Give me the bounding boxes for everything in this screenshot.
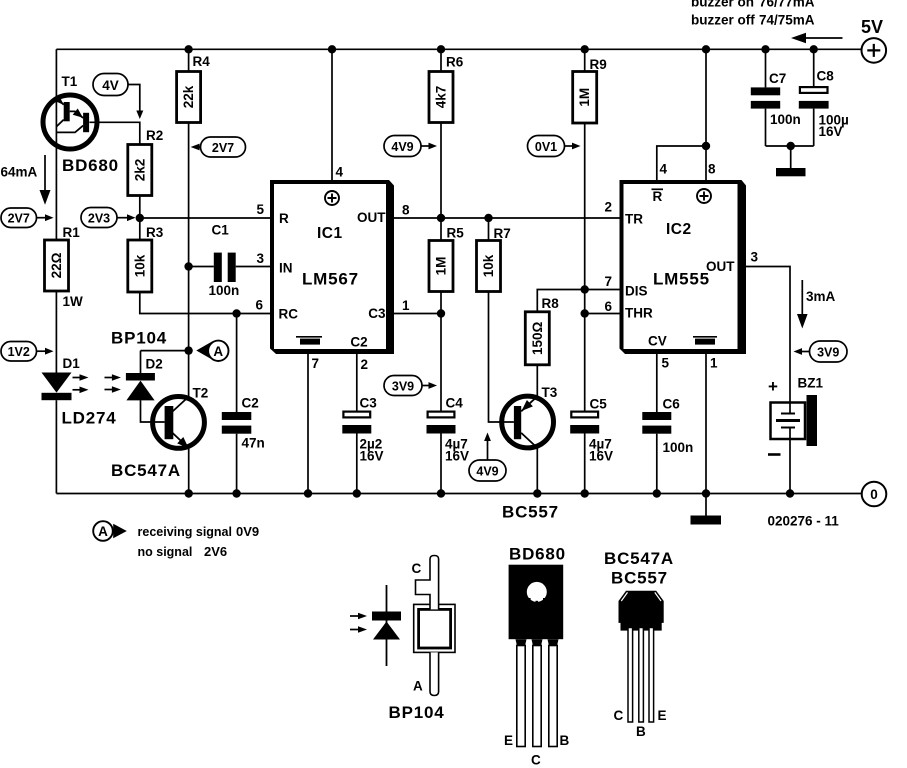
- svg-text:C3: C3: [360, 396, 378, 411]
- svg-text:4k7: 4k7: [434, 86, 449, 109]
- svg-text:1: 1: [402, 298, 410, 313]
- svg-text:IC2: IC2: [666, 221, 692, 238]
- node 4V9 measurement bottom: [469, 433, 506, 482]
- svg-text:100n: 100n: [209, 283, 240, 298]
- svg-text:64mA: 64mA: [1, 165, 38, 180]
- svg-text:22k: 22k: [181, 85, 196, 108]
- wire top +5V rail: [56, 48, 861, 50]
- node 1V2 measurement: [1, 342, 54, 362]
- svg-text:2V7: 2V7: [8, 212, 30, 226]
- svg-text:receiving signal: receiving signal: [138, 525, 232, 539]
- svg-text:C2: C2: [242, 396, 259, 411]
- svg-text:10k: 10k: [132, 254, 147, 277]
- svg-text:16V: 16V: [589, 449, 613, 464]
- svg-text:2k2: 2k2: [132, 159, 147, 182]
- capacitor C5: [570, 397, 613, 494]
- svg-text:C: C: [614, 708, 624, 723]
- svg-text:E: E: [658, 708, 667, 723]
- node 3V9 measurement mid: [384, 376, 437, 396]
- svg-text:020276 - 11: 020276 - 11: [768, 514, 840, 529]
- wire bottom 0V rail: [56, 493, 861, 495]
- svg-text:R4: R4: [193, 54, 211, 69]
- svg-text:74/75mA: 74/75mA: [759, 13, 815, 28]
- svg-text:T2: T2: [193, 386, 209, 401]
- svg-text:T1: T1: [62, 74, 78, 89]
- svg-text:BC557: BC557: [611, 569, 668, 588]
- svg-text:BD680: BD680: [509, 545, 566, 564]
- svg-text:2V6: 2V6: [204, 544, 227, 559]
- wire left vertical T1 emitter/collector branch: [55, 49, 57, 493]
- diode D1 LD274 IR LED: [42, 356, 117, 428]
- svg-text:6: 6: [604, 299, 612, 314]
- svg-text:5V: 5V: [861, 17, 883, 37]
- svg-text:R8: R8: [542, 296, 560, 311]
- svg-text:C7: C7: [769, 71, 786, 86]
- svg-text:10k: 10k: [481, 254, 496, 277]
- junction dots left section: [136, 214, 193, 355]
- capacitor C8: [799, 49, 849, 146]
- svg-text:7: 7: [604, 274, 612, 289]
- capacitor C7: [751, 49, 801, 146]
- wire IC1 pin 2 to C3: [356, 353, 358, 411]
- svg-text:BC547A: BC547A: [604, 549, 674, 568]
- svg-text:IC1: IC1: [317, 225, 343, 242]
- svg-text:OUT: OUT: [706, 259, 735, 274]
- resistor R8: [525, 290, 619, 397]
- svg-text:BZ1: BZ1: [798, 376, 824, 391]
- svg-text:1W: 1W: [63, 294, 84, 309]
- junction dots bottom rail: [185, 489, 795, 497]
- capacitor C2: [222, 314, 265, 494]
- node 3V9 measurement right: [794, 341, 848, 362]
- svg-text:R: R: [279, 211, 289, 226]
- svg-text:22Ω: 22Ω: [49, 252, 64, 278]
- svg-text:2V3: 2V3: [88, 211, 110, 225]
- svg-text:3mA: 3mA: [806, 289, 836, 304]
- capacitor C3: [342, 396, 383, 494]
- svg-text:6: 6: [255, 298, 263, 313]
- svg-text:8: 8: [708, 162, 716, 177]
- svg-text:D2: D2: [146, 357, 163, 372]
- svg-text:DIS: DIS: [625, 284, 648, 299]
- wire R3 bottom to RC pin: [140, 292, 270, 314]
- wire R2 bottom to R3 top with R pin branch: [140, 196, 270, 241]
- node 4V9 measurement top: [384, 136, 437, 157]
- svg-text:A: A: [213, 344, 223, 359]
- svg-text:100n: 100n: [663, 440, 694, 455]
- svg-text:B: B: [560, 733, 570, 748]
- BP104 package drawing: [350, 556, 455, 723]
- annotation 64mA current arrow: [1, 155, 51, 205]
- svg-text:BC557: BC557: [502, 503, 559, 522]
- svg-text:BC547A: BC547A: [111, 461, 181, 480]
- svg-text:R1: R1: [63, 225, 81, 240]
- svg-text:8: 8: [402, 203, 410, 218]
- svg-text:RC: RC: [279, 307, 299, 322]
- svg-text:B: B: [636, 724, 646, 739]
- svg-text:E: E: [504, 733, 513, 748]
- node 5V supply terminal: [861, 17, 886, 63]
- wire T3 collector to rail: [536, 448, 538, 494]
- svg-text:C: C: [412, 561, 422, 576]
- BD680 package drawing: [504, 545, 570, 768]
- capacitor C4: [427, 396, 470, 494]
- svg-text:OUT: OUT: [357, 210, 386, 225]
- wire T2 collector: [188, 351, 190, 397]
- current direction arrow at 5V: [791, 33, 843, 43]
- svg-text:C8: C8: [817, 69, 835, 84]
- wire R4 bottom to junction A column: [188, 123, 190, 351]
- svg-text:IN: IN: [279, 261, 293, 276]
- svg-text:2V7: 2V7: [212, 141, 234, 155]
- ground symbol top right: [776, 168, 806, 176]
- junction dots middle section: [232, 214, 589, 318]
- junction dots IC2 top jog: [702, 142, 795, 150]
- wire T2 emitter to rail: [188, 448, 190, 493]
- transistor T2 BC547A: [111, 386, 208, 481]
- svg-text:100n: 100n: [770, 112, 801, 127]
- wire IC1 pin 7 to rail: [307, 353, 309, 494]
- svg-text:3V9: 3V9: [817, 345, 839, 359]
- svg-text:5: 5: [256, 202, 264, 217]
- svg-text:R6: R6: [446, 55, 464, 70]
- svg-text:R5: R5: [447, 226, 465, 241]
- annotation circuit number: [768, 514, 840, 529]
- wire IC2 pin 5 to C6: [656, 353, 658, 412]
- op-amp IC1 LM567 tone decoder: [270, 180, 394, 354]
- resistor R4: [177, 49, 211, 122]
- svg-text:5: 5: [662, 356, 670, 371]
- annotation 3mA current arrow: [797, 280, 836, 329]
- svg-text:C3: C3: [368, 306, 386, 321]
- BC547A BC557 package drawing: [604, 549, 674, 739]
- transistor T3 BC557: [502, 385, 559, 522]
- pin numbers IC1: [255, 165, 410, 373]
- svg-text:C1: C1: [212, 223, 230, 238]
- pin numbers IC2: [604, 162, 758, 371]
- svg-text:BP104: BP104: [111, 329, 167, 348]
- svg-text:0: 0: [870, 487, 878, 502]
- svg-text:2: 2: [604, 200, 612, 215]
- resistor R1: [45, 225, 84, 309]
- wire IC2 pin 1 to ground: [705, 353, 707, 516]
- svg-text:LM555: LM555: [653, 270, 710, 289]
- svg-text:0V9: 0V9: [236, 524, 259, 539]
- photodiode D2 BP104: [105, 329, 189, 423]
- svg-text:0V1: 0V1: [535, 140, 557, 154]
- svg-text:4V9: 4V9: [476, 464, 498, 478]
- node 2V7 measurement right: [191, 137, 246, 157]
- resistor R7: [477, 218, 514, 422]
- svg-text:buzzer on: buzzer on: [691, 0, 754, 10]
- svg-text:no signal: no signal: [138, 545, 193, 559]
- svg-text:4V9: 4V9: [391, 140, 413, 154]
- svg-text:1V2: 1V2: [8, 345, 30, 359]
- svg-text:7: 7: [312, 356, 320, 371]
- wire IC1 pin 1 C3: [394, 313, 441, 315]
- svg-text:R7: R7: [494, 226, 511, 241]
- svg-text:CV: CV: [648, 334, 667, 349]
- svg-text:T3: T3: [542, 385, 558, 400]
- svg-text:R: R: [653, 189, 663, 204]
- wire buzzer to rail: [789, 439, 791, 494]
- svg-text:THR: THR: [625, 306, 653, 321]
- svg-text:3V9: 3V9: [392, 379, 414, 393]
- svg-text:16V: 16V: [445, 449, 469, 464]
- buzzer current annotation text: [691, 0, 815, 28]
- svg-text:LM567: LM567: [302, 270, 359, 289]
- op-amp IC2 LM555 timer: [620, 180, 747, 354]
- capacitor C6: [642, 397, 693, 494]
- svg-text:1M: 1M: [434, 257, 449, 276]
- svg-text:buzzer off: buzzer off: [691, 13, 755, 28]
- resistor R9: [573, 49, 607, 412]
- buzzer BZ1: [768, 376, 823, 455]
- svg-text:3: 3: [751, 250, 759, 265]
- ground symbol pin 1: [691, 516, 722, 525]
- svg-text:2: 2: [361, 357, 369, 372]
- svg-text:BP104: BP104: [389, 703, 445, 722]
- svg-text:1M: 1M: [577, 88, 592, 107]
- svg-text:R3: R3: [146, 225, 164, 240]
- svg-text:C5: C5: [590, 397, 608, 412]
- transistor T1 BD680 darlington: [43, 74, 119, 175]
- node 0V terminal: [862, 482, 887, 507]
- wire C7/C8 ground jog: [766, 146, 814, 168]
- svg-text:R2: R2: [146, 128, 163, 143]
- svg-text:150Ω: 150Ω: [530, 321, 545, 355]
- svg-text:C4: C4: [446, 396, 464, 411]
- svg-text:16V: 16V: [819, 124, 843, 139]
- svg-text:BD680: BD680: [62, 156, 119, 175]
- wire IC1 OUT to IC2 TR: [394, 217, 620, 219]
- capacitor C1: [189, 223, 270, 299]
- svg-text:LD274: LD274: [62, 409, 117, 428]
- svg-text:4: 4: [336, 165, 344, 180]
- node 0V1 measurement: [528, 136, 581, 157]
- node 4V measurement label: [93, 74, 143, 120]
- svg-text:D1: D1: [63, 356, 81, 371]
- resistor R5: [429, 226, 464, 411]
- node 2V3 measurement: [81, 208, 136, 228]
- resistor R3: [128, 225, 164, 292]
- svg-text:16V: 16V: [360, 449, 384, 464]
- wire IC2 pins 4/8 to rail: [657, 49, 706, 180]
- wire IC1 pin 4 to rail: [331, 49, 333, 180]
- node 2V7 measurement left: [1, 208, 54, 228]
- svg-text:4V: 4V: [102, 78, 119, 93]
- resistor R2: [128, 128, 163, 196]
- wire T1 base to R2: [89, 122, 139, 144]
- svg-text:4: 4: [660, 162, 668, 177]
- svg-text:76/77mA: 76/77mA: [759, 0, 815, 10]
- svg-text:A: A: [413, 679, 423, 694]
- node A pointer label: [196, 341, 228, 361]
- wire THR to R9 column: [585, 313, 620, 315]
- svg-text:47n: 47n: [242, 436, 265, 451]
- svg-text:C: C: [531, 753, 541, 768]
- junction dots top rail: [184, 45, 818, 53]
- legend A explanation: [93, 521, 259, 559]
- svg-text:C6: C6: [663, 397, 681, 412]
- svg-text:R9: R9: [590, 57, 607, 72]
- svg-text:3: 3: [256, 251, 264, 266]
- svg-text:TR: TR: [625, 212, 643, 227]
- svg-text:1: 1: [710, 356, 718, 371]
- svg-text:+: +: [768, 377, 779, 396]
- svg-text:C2: C2: [350, 335, 367, 350]
- wire IC2 pin 3 OUT to buzzer: [744, 267, 790, 403]
- svg-text:A: A: [98, 524, 108, 539]
- resistor R6: [429, 49, 464, 240]
